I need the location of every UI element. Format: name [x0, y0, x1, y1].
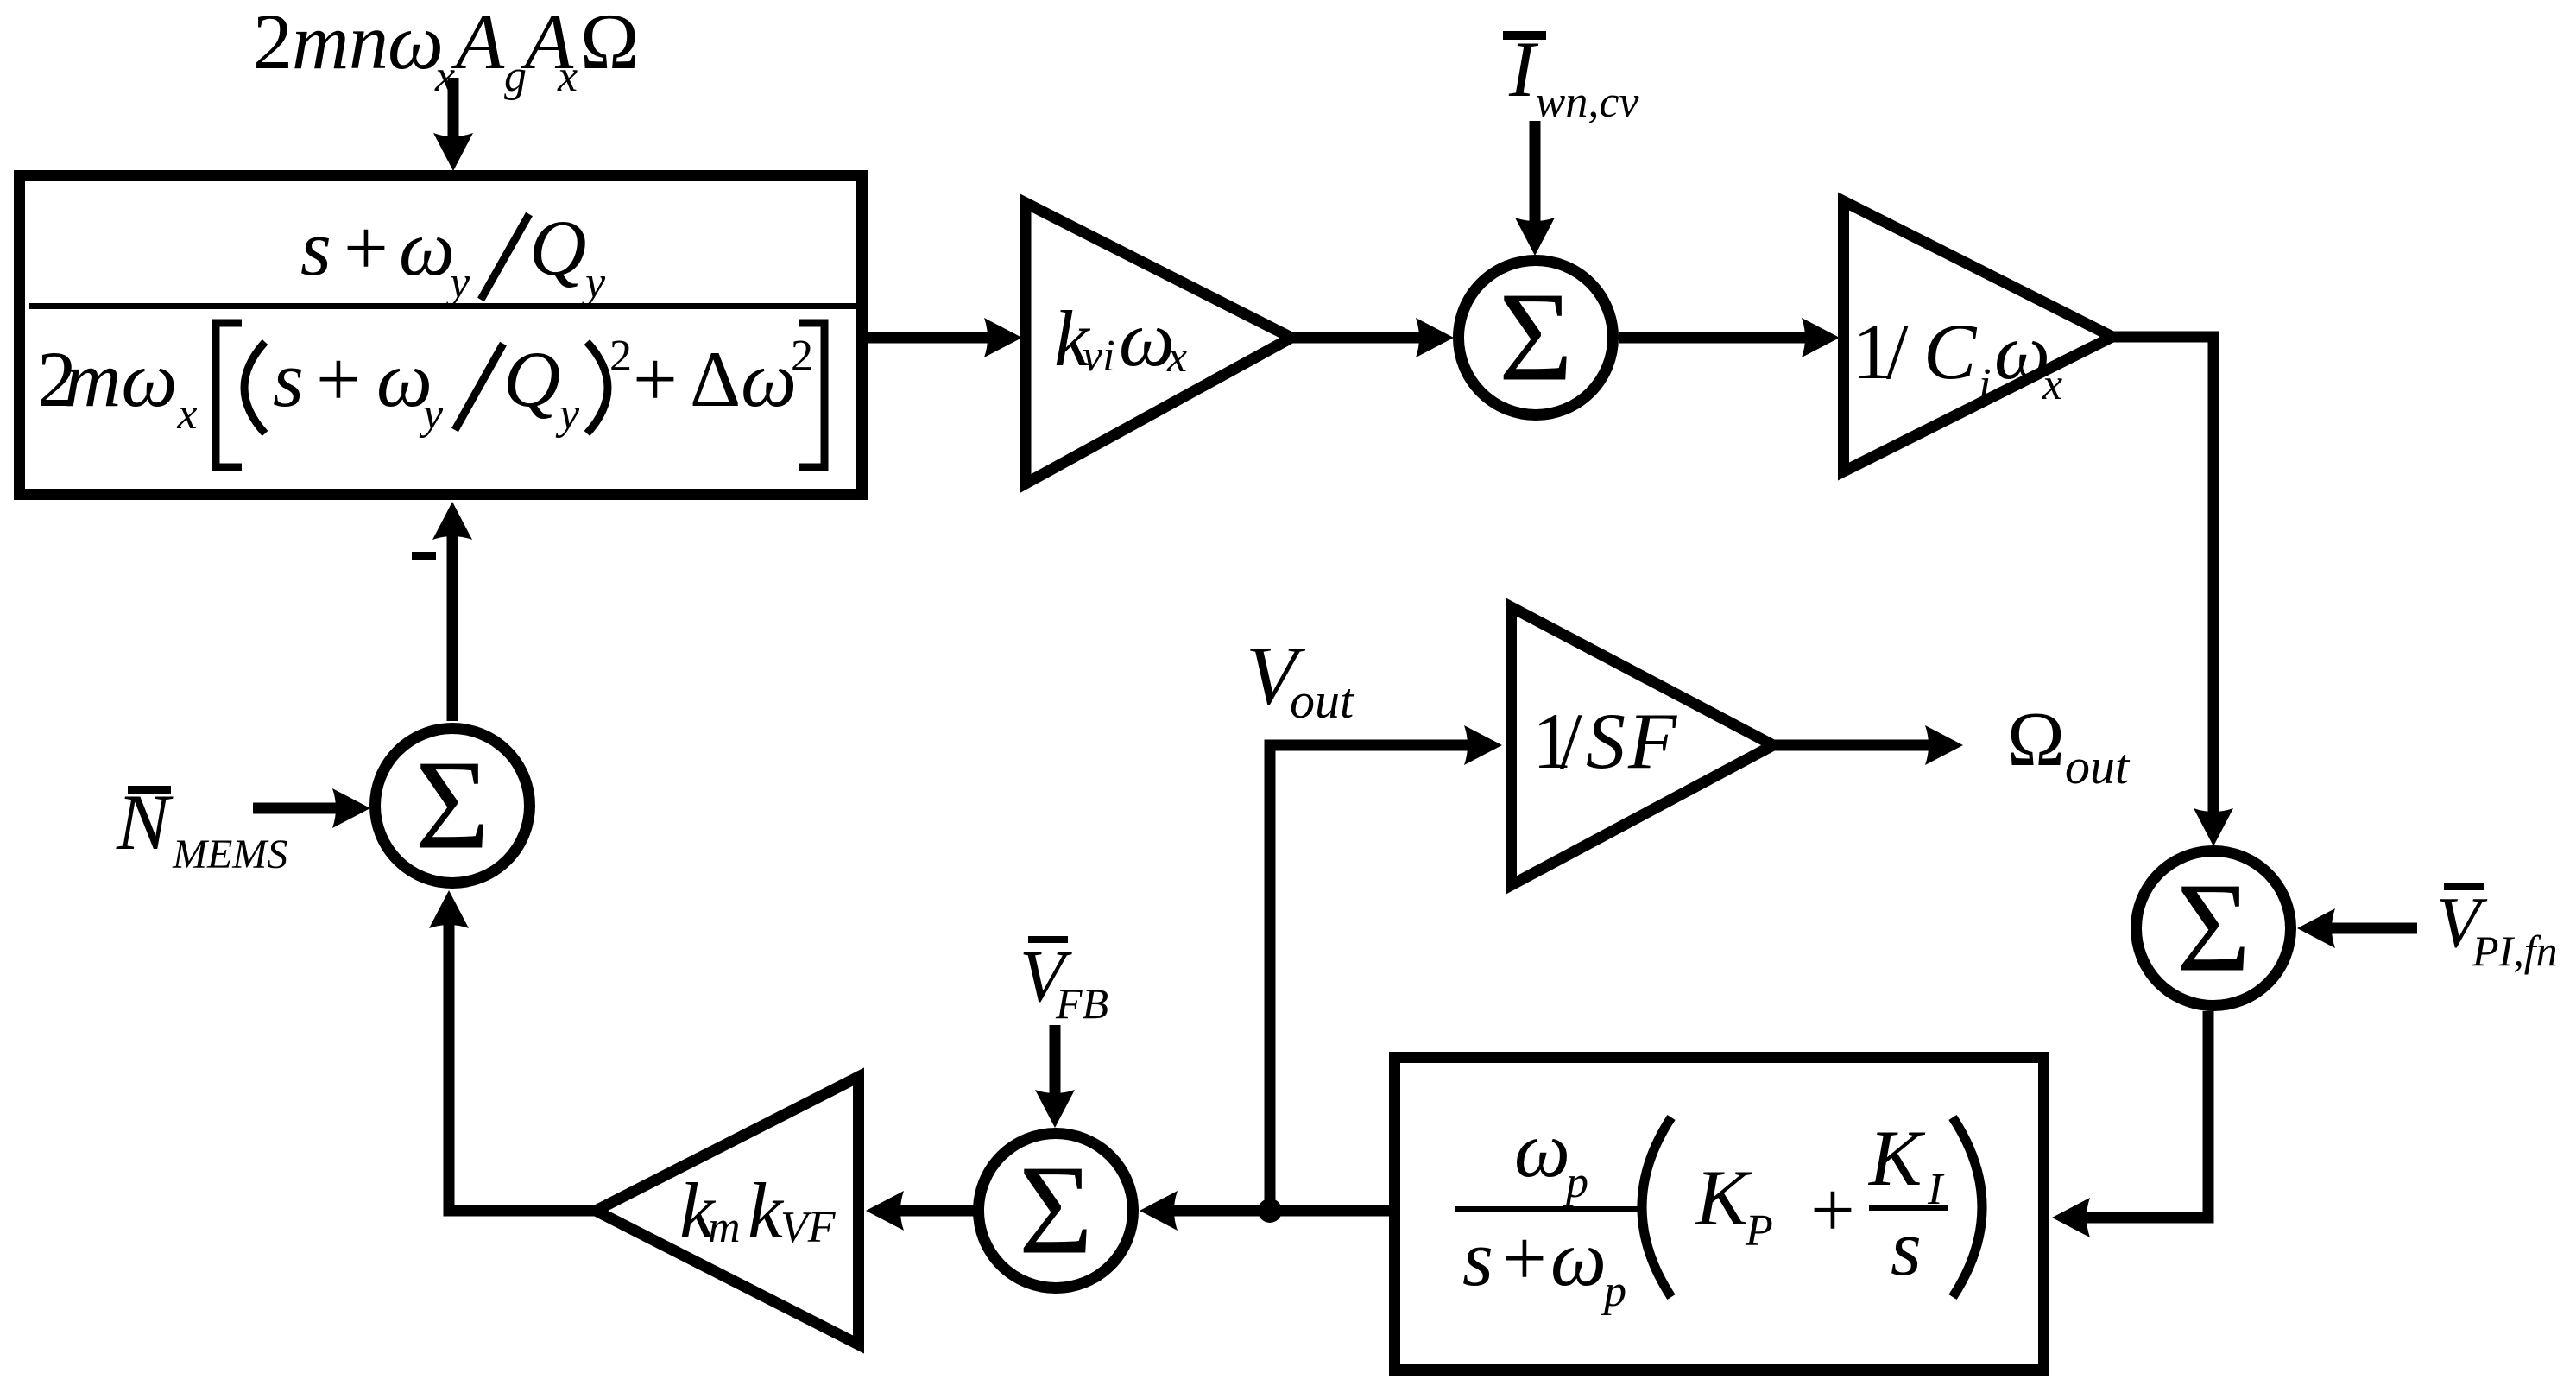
- wire: G1 output to T1: [868, 332, 1006, 344]
- svg-text:Ωout: Ωout: [2007, 697, 2131, 794]
- svg-text:2mωxs+ωyQy2+Δω2: 2mωxs+ωyQy2+Δω2: [37, 332, 813, 439]
- svg-text:2mnωxAgAxΩ: 2mnωxAgAxΩ: [253, 0, 639, 101]
- wire: V_out tap up then right to T4: [1270, 745, 1485, 1211]
- svg-text:s: s: [1891, 1204, 1922, 1292]
- right paren in G1 denominator: [587, 342, 608, 433]
- arrowhead into S1: [1416, 318, 1454, 357]
- svg-text:Σ: Σ: [2176, 857, 2251, 999]
- arrowhead into T4: [1464, 725, 1502, 765]
- wire: V_PI,fn input into S2: [2316, 923, 2417, 934]
- fraction bar K_I/s in PI block: [1869, 1205, 1948, 1211]
- summing junction S1 (after k_vi*omega_x): [1459, 261, 1613, 415]
- svg-text:NMEMS: NMEMS: [116, 778, 287, 877]
- svg-text:Σ: Σ: [415, 735, 489, 876]
- arrowhead into S2 right: [2297, 908, 2335, 948]
- wire: I_wn,cv input down to S1: [1530, 121, 1541, 239]
- amplifier T1: k_vi*omega_x gain triangle: [1026, 203, 1291, 484]
- arrowhead into T1: [984, 318, 1022, 357]
- wire: T1 to S1: [1291, 332, 1437, 344]
- right square bracket in G1 denominator: [799, 323, 824, 467]
- summing junction S4 (N_MEMS input): [376, 729, 530, 883]
- wire: V_FB input down to S3: [1050, 1025, 1061, 1110]
- wire: PI block output left to S3: [1159, 1205, 1389, 1217]
- minus sign at negative feedback arrow: [412, 552, 436, 560]
- summing junction S2 (V_PI,fn input): [2137, 851, 2291, 1006]
- svg-text:Iwn,cv: Iwn,cv: [1508, 25, 1639, 127]
- overbar of I_wn,cv: [1503, 31, 1546, 40]
- svg-text:s+ωyQy: s+ωyQy: [300, 204, 606, 307]
- arrowhead into S4 bottom: [429, 890, 469, 928]
- svg-text:+: +: [1810, 1166, 1855, 1254]
- stretched slash in G1 denominator: [455, 344, 503, 430]
- svg-text:KP: KP: [1694, 1154, 1773, 1256]
- svg-text:VFB: VFB: [1020, 934, 1108, 1028]
- stretched slash in G1 numerator: [481, 214, 529, 300]
- wire: 2mn*omega_x*Ag*Ax*Omega input down to G1: [448, 78, 459, 155]
- block PI: controller transfer function rectangle: [1395, 1058, 2044, 1370]
- arrowhead into T2: [1802, 318, 1840, 357]
- wire: N_MEMS input into S4: [253, 803, 352, 814]
- wire: T3 output left then up to S4: [449, 908, 596, 1211]
- svg-text:Σ: Σ: [1499, 267, 1573, 408]
- block G1: gyro dynamics transfer function rectangle: [20, 176, 862, 495]
- arrowhead into G1 bottom (negative feedback): [432, 502, 472, 540]
- arrowhead into S3 top: [1035, 1090, 1075, 1128]
- svg-text:Σ: Σ: [1019, 1140, 1093, 1281]
- left paren in G1 denominator: [244, 342, 265, 433]
- overbar of V_PI,fn: [2444, 883, 2484, 890]
- svg-text:1/Ciωx: 1/Ciωx: [1853, 307, 2062, 409]
- wire: S4 output up to G1 bottom: [447, 521, 458, 721]
- arrowhead into S4 left: [332, 788, 370, 828]
- arrowhead at Omega_out: [1925, 725, 1963, 765]
- arrowhead into S3 right: [1140, 1191, 1178, 1231]
- summing junction S3 (V_FB input): [979, 1134, 1133, 1288]
- svg-text:Vout: Vout: [1246, 630, 1355, 729]
- svg-text:KI: KI: [1867, 1114, 1945, 1214]
- wire: T4 output to Omega_out: [1773, 740, 1944, 751]
- big right paren in PI block: [1953, 1117, 1982, 1297]
- left square bracket in G1 denominator: [216, 323, 242, 467]
- svg-text:VPI,fn: VPI,fn: [2436, 883, 2558, 975]
- amplifier T3: k_m*k_VF feedback gain triangle (points left): [596, 1077, 859, 1345]
- arrowhead into G1 top: [433, 133, 473, 171]
- overbar of N_MEMS: [128, 786, 171, 794]
- fraction bar omega_p/(s+omega_p) in PI block: [1455, 1206, 1642, 1212]
- wire: T2 output right then down to S2: [2112, 337, 2213, 829]
- svg-text:1/SF: 1/SF: [1532, 697, 1677, 785]
- amplifier T4: 1/SF gain triangle: [1512, 607, 1774, 885]
- svg-text:kviωx: kviωx: [1054, 294, 1187, 383]
- wire: S2 output down then left to PI block: [2071, 1011, 2208, 1218]
- overbar of V_FB: [1028, 936, 1068, 943]
- arrowhead into T3 right edge: [866, 1191, 904, 1231]
- svg-text:ωp: ωp: [1514, 1105, 1588, 1207]
- fraction bar in G1: [29, 303, 856, 309]
- wire: S3 output left to T3: [886, 1205, 978, 1217]
- arrowhead into S1 top: [1515, 218, 1555, 256]
- wire: S1 to T2: [1619, 332, 1823, 344]
- arrowhead into PI block right edge: [2052, 1198, 2090, 1237]
- amplifier T2: 1/(C_i*omega_x) gain triangle: [1844, 201, 2113, 471]
- svg-text:s+ωp: s+ωp: [1462, 1214, 1626, 1316]
- junction node: V_out tap: [1258, 1199, 1282, 1223]
- big left paren in PI block: [1642, 1117, 1671, 1297]
- arrowhead into S2 top: [2194, 808, 2233, 846]
